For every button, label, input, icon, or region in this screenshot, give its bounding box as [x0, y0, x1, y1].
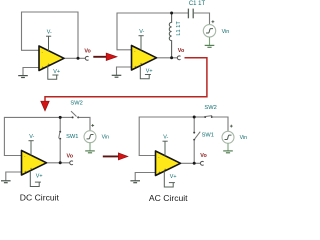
- non-inverting input wire of U3: [6, 172, 23, 181]
- svg-text:C1 1T: C1 1T: [189, 1, 206, 7]
- op-amp U1: [39, 46, 64, 71]
- svg-text:Vin: Vin: [102, 135, 110, 141]
- svg-text:SW2: SW2: [204, 105, 216, 111]
- switch SW2b (closed): [204, 116, 206, 118]
- svg-text:V+: V+: [170, 174, 177, 180]
- plus mark of Vin4: [230, 125, 233, 128]
- svg-text:V+: V+: [53, 69, 60, 75]
- switch SW2a (open): [72, 116, 74, 118]
- output wire of U4: [180, 162, 200, 164]
- svg-text:Vo: Vo: [178, 48, 185, 54]
- node on top wire of U4: [193, 116, 196, 119]
- ground G5: [1, 181, 11, 183]
- node Vo3 junction: [59, 161, 62, 164]
- svg-text:V+: V+: [146, 69, 153, 75]
- wire junction to switch SW2b: [194, 116, 204, 118]
- switch SW1a (closed): [59, 131, 61, 133]
- sine source Vin4: [222, 131, 234, 143]
- wire SW2b to source Vin4: [212, 117, 228, 131]
- V+ supply pin of U3: [30, 171, 41, 187]
- ground G6 below source: [223, 151, 233, 153]
- red arrow pointing down into DC circuit: [41, 101, 49, 111]
- capacitor C1: [188, 9, 193, 19]
- red arrow from first circuit to second: [93, 56, 107, 58]
- V+ supply pin of U1: [48, 66, 59, 79]
- sine source Vin3: [84, 131, 96, 143]
- wire source Vin4 to ground: [227, 143, 229, 151]
- terminal Vo1: [85, 56, 88, 60]
- output wire of U3: [46, 162, 70, 164]
- feedback wire top of U4: [139, 116, 194, 118]
- node Vo2 junction: [170, 56, 173, 59]
- node Vo4 junction: [193, 162, 196, 165]
- svg-text:L1 1T: L1 1T: [176, 21, 182, 36]
- svg-text:SW2: SW2: [70, 101, 82, 107]
- feedback wire top of U1: [22, 11, 79, 13]
- non-inverting input wire of U1: [23, 68, 40, 76]
- V+ supply pin of U4: [164, 171, 175, 187]
- V- supply pin of U4: [163, 141, 168, 156]
- svg-text:Vin: Vin: [240, 135, 248, 141]
- terminal Vo2: [177, 56, 180, 60]
- feedback wire left of U1: [21, 12, 23, 51]
- red arrow from DC circuit to AC circuit: [103, 155, 120, 157]
- plus mark of Vin2: [212, 20, 215, 23]
- sine source Vin2: [203, 25, 215, 37]
- feedback wire left of U4: [138, 117, 140, 156]
- terminal Vo4: [200, 161, 203, 165]
- inverting input wire of U3: [4, 155, 23, 157]
- op-amp U2: [132, 46, 157, 71]
- svg-text:DC Circuit: DC Circuit: [20, 192, 60, 202]
- red wire from Vo2 down-left to DC circuit: [45, 58, 207, 102]
- wire junction to switch SW2a: [60, 116, 72, 118]
- feedback wire right of U1: [77, 12, 79, 59]
- node on top wire of U3: [59, 116, 62, 119]
- svg-text:Vo: Vo: [84, 49, 91, 55]
- node Vo1 junction: [77, 57, 80, 60]
- inductor L1: [169, 13, 171, 58]
- wire capacitor to source Vin2: [194, 13, 210, 25]
- wire capacitor to inductor node: [172, 12, 188, 14]
- svg-text:Vo: Vo: [200, 153, 207, 159]
- feedback wire top of U3: [4, 116, 60, 118]
- op-amp U4: [156, 151, 181, 176]
- wire SW1a to output node: [59, 139, 61, 163]
- wire SW2a to source Vin3: [79, 117, 90, 130]
- ground G2 below source: [205, 45, 215, 47]
- feedback wire top of U2: [117, 12, 172, 14]
- op-amp U3: [22, 151, 47, 176]
- non-inverting input wire of U4: [135, 173, 156, 181]
- feedback wire left of U2: [116, 13, 118, 50]
- inverting input wire of U1: [21, 49, 40, 51]
- ground G4 below source: [85, 151, 95, 153]
- V- supply pin of U2: [139, 36, 144, 51]
- svg-text:V-: V-: [163, 134, 168, 140]
- ground G1: [18, 76, 28, 78]
- inverting input wire of U2: [117, 49, 133, 51]
- plus mark of Vin3: [91, 124, 94, 127]
- inverting input wire of U4: [139, 155, 157, 157]
- non-inverting input wire of U2: [117, 67, 133, 75]
- svg-text:AC Circuit: AC Circuit: [149, 193, 188, 203]
- ground G3: [112, 75, 122, 77]
- svg-text:SW1: SW1: [66, 134, 78, 140]
- ground G7: [130, 181, 140, 183]
- V- supply pin of U1: [46, 36, 51, 51]
- wire source Vin2 to ground: [209, 37, 211, 45]
- svg-text:Vo: Vo: [67, 153, 74, 159]
- svg-text:V-: V-: [29, 134, 34, 140]
- node between L1 C1 and feedback: [170, 12, 173, 15]
- V+ supply pin of U2: [140, 66, 151, 79]
- wire junction to switch SW1b: [193, 117, 195, 132]
- svg-text:V-: V-: [139, 29, 144, 35]
- svg-text:V+: V+: [36, 174, 43, 180]
- wire SW1b to output node: [193, 140, 195, 163]
- feedback wire left of U3: [3, 117, 5, 156]
- switch SW1b (open): [193, 132, 195, 134]
- svg-text:Vin: Vin: [222, 29, 230, 35]
- svg-text:V-: V-: [47, 29, 52, 35]
- output wire of U2: [156, 57, 178, 59]
- wire junction to switch SW1a: [59, 117, 61, 131]
- wire source Vin3 to ground: [89, 143, 91, 151]
- output wire of U1: [64, 57, 86, 59]
- V- supply pin of U3: [29, 141, 34, 156]
- svg-text:SW1: SW1: [202, 132, 214, 138]
- terminal Vo3: [70, 161, 73, 165]
